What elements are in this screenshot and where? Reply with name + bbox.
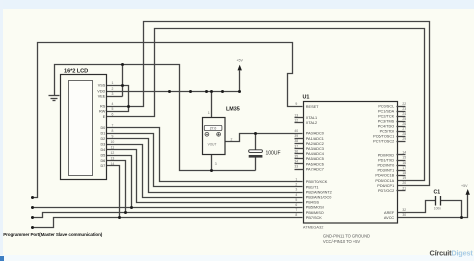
svg-text:1: 1 [208, 111, 210, 115]
wire +5V rail from LCD VDD to +5V arrow [107, 71, 240, 92]
temperature sensor LM35 body [203, 118, 226, 155]
power +5V symbol (AVCC / C1) [461, 184, 470, 195]
svg-text:PB5/MOSI: PB5/MOSI [306, 206, 324, 210]
svg-text:PD2/INT0: PD2/INT0 [378, 164, 395, 168]
svg-text:PA1/ADC1: PA1/ADC1 [306, 137, 324, 141]
svg-text:27: 27 [402, 127, 406, 131]
wire LCD D5 to U1 PB5 [107, 156, 303, 208]
svg-text:20: 20 [402, 181, 406, 185]
svg-text:RW: RW [99, 110, 106, 114]
svg-text:AVCC: AVCC [384, 216, 395, 220]
U1 right pin name labels [373, 105, 395, 220]
svg-text:PA4/ADC4: PA4/ADC4 [306, 152, 324, 156]
junction on +5V rail [221, 90, 224, 93]
svg-text:6: 6 [111, 113, 113, 117]
blue corner mark bottom-left [0, 256, 4, 261]
svg-text:19: 19 [402, 176, 406, 180]
svg-text:8: 8 [295, 213, 297, 217]
top light blue band [0, 0, 474, 9]
capacitor 100UF top plate [249, 150, 263, 153]
svg-text:PA5/ADC5: PA5/ADC5 [306, 157, 324, 161]
svg-text:2: 2 [295, 183, 297, 187]
capacitor 100UF bottom plate (polarized) [249, 155, 263, 158]
svg-text:+5V: +5V [461, 184, 468, 188]
svg-text:7: 7 [111, 124, 113, 128]
svg-text:PD1/TXD: PD1/TXD [378, 158, 394, 162]
ground symbol [49, 96, 60, 101]
junction VOUT wire / 100UF top [254, 132, 257, 135]
junction LM35 pin3 / ground run [210, 169, 213, 172]
node programmer terminal A (RESET) [31, 196, 34, 199]
svg-text:PC5/TDI: PC5/TDI [380, 130, 395, 134]
svg-text:PC6/TOSC1: PC6/TOSC1 [373, 135, 394, 139]
svg-text:21: 21 [402, 186, 406, 190]
svg-text:D5: D5 [100, 153, 105, 157]
svg-text:22: 22 [402, 102, 406, 106]
svg-text:17: 17 [402, 166, 406, 170]
LCD display 16*2 LCD box [61, 75, 107, 180]
svg-text:PB4/SS: PB4/SS [306, 201, 320, 205]
svg-text:D0: D0 [100, 126, 105, 130]
svg-text:VCC/-PIN10 TO +5V: VCC/-PIN10 TO +5V [323, 239, 361, 244]
svg-text:5: 5 [295, 198, 297, 202]
svg-text:1: 1 [111, 81, 113, 85]
svg-text:D7: D7 [100, 164, 105, 168]
svg-text:16*2 LCD: 16*2 LCD [64, 69, 88, 75]
svg-text:PD4/OC1B: PD4/OC1B [375, 174, 394, 178]
svg-text:PC0/SCL: PC0/SCL [378, 105, 394, 109]
svg-text:8: 8 [111, 129, 113, 133]
LCD screen inner rectangle [69, 81, 93, 176]
svg-text:4: 4 [111, 102, 113, 106]
svg-text:26: 26 [402, 122, 406, 126]
svg-text:Programmer Port(Master Slave c: Programmer Port(Master Slave communicati… [3, 232, 103, 237]
svg-text:12: 12 [111, 151, 115, 155]
svg-text:PC3/TMS: PC3/TMS [378, 120, 395, 124]
capacitor C1 plates [436, 196, 441, 206]
svg-text:40: 40 [294, 129, 298, 133]
svg-text:9: 9 [295, 102, 297, 106]
svg-text:PA0/ADC0: PA0/ADC0 [306, 132, 324, 136]
node programmer terminal D (SCK) [31, 226, 34, 229]
LCD pin name labels [97, 84, 105, 169]
svg-text:PB7/SCK: PB7/SCK [306, 216, 323, 220]
svg-text:33: 33 [294, 165, 298, 169]
svg-text:AREF: AREF [384, 211, 395, 215]
wire LCD E over the top to U1 PD5/OC1A pin 19 [107, 29, 425, 181]
wire LM35 pin1 to +5V rail [211, 92, 213, 118]
svg-text:7: 7 [295, 208, 297, 212]
U1 right pin stubs [397, 107, 406, 191]
svg-text:VDD: VDD [97, 90, 105, 94]
LCD pin numbers 1-14 [111, 81, 115, 166]
left light blue edge [0, 0, 3, 261]
wire programmer terminal C (MISO) step up to PB6 net [33, 213, 126, 218]
svg-text:PC4/TDO: PC4/TDO [378, 125, 395, 129]
svg-text:CírcuitDigest: CírcuitDigest [430, 248, 474, 257]
wire 100UF top plate to LM35 VOUT net [255, 134, 257, 150]
wire C1 right plate down to AVCC wire [441, 201, 462, 218]
svg-text:1: 1 [295, 178, 297, 182]
wire programmer terminal D (SCK) step up to PB7 net [33, 218, 120, 228]
junction VSS stub / ground vertical [121, 84, 124, 87]
svg-text:GND-PIN11 TO GROUND: GND-PIN11 TO GROUND [323, 233, 370, 238]
wire programmer terminal B (MOSI) to PB5 net [33, 207, 132, 209]
svg-text:29: 29 [402, 137, 406, 141]
power +5V symbol (LM35 rail) [236, 59, 243, 71]
svg-text:XTAL1: XTAL1 [306, 116, 317, 120]
svg-text:D2: D2 [100, 137, 105, 141]
LM35 temperature display window 27.0 [204, 125, 222, 130]
node programmer terminal C (MISO) [31, 216, 34, 219]
junction C1 right plate / AVCC wire [460, 216, 463, 219]
svg-text:4: 4 [295, 193, 297, 197]
junction MOSI wire / D5 corner PB5 [130, 206, 133, 209]
svg-text:ATMEGA32: ATMEGA32 [303, 224, 323, 229]
svg-text:15: 15 [402, 156, 406, 160]
svg-text:35: 35 [294, 155, 298, 159]
wire LCD D6 to U1 PB6 [107, 161, 303, 213]
svg-text:PB6/MISO: PB6/MISO [306, 211, 324, 215]
wire LCD RS over the top to U1 PD6/ICP1 pin 20 [107, 22, 430, 186]
wire U1 AREF pin 32 up to C1 left plate [398, 201, 436, 213]
wire 100UF bottom plate to ground run [255, 158, 257, 171]
svg-text:100n: 100n [434, 207, 441, 211]
node programmer terminal B (MOSI) [31, 206, 34, 209]
svg-text:9: 9 [111, 135, 113, 139]
svg-text:PA7/ADC7: PA7/ADC7 [306, 167, 324, 171]
wire ground net: ground symbol up, across, down at right of LCD, along bottom to 100UF [55, 65, 256, 171]
svg-text:D6: D6 [100, 159, 105, 163]
svg-text:PC1/SDA: PC1/SDA [378, 110, 395, 114]
svg-text:PB1/T1: PB1/T1 [306, 185, 319, 189]
svg-text:36: 36 [294, 149, 298, 153]
svg-text:PD7/OC2: PD7/OC2 [378, 189, 394, 193]
U1 right pin numbers [402, 102, 406, 217]
svg-text:PC2/TCK: PC2/TCK [378, 115, 395, 119]
svg-text:16: 16 [402, 161, 406, 165]
U1 left pin stubs [295, 118, 304, 170]
svg-text:D1: D1 [100, 132, 105, 136]
svg-text:PB3/AIN1/OC0: PB3/AIN1/OC0 [306, 196, 332, 200]
wire LM35 pin3 to ground run [211, 155, 213, 171]
svg-text:PA3/ADC3: PA3/ADC3 [306, 147, 324, 151]
svg-text:PD5/OC1A: PD5/OC1A [375, 179, 394, 183]
junction MISO wire / D6 corner PB6 [124, 211, 127, 214]
svg-text:PA6/ADC6: PA6/ADC6 [306, 162, 324, 166]
svg-text:PC7/TOSC2: PC7/TOSC2 [373, 140, 394, 144]
wire LCD D7 to U1 PB7 [107, 166, 303, 218]
svg-text:2: 2 [231, 138, 233, 142]
svg-text:14: 14 [402, 151, 406, 155]
svg-text:PB2/AIN0/INT2: PB2/AIN0/INT2 [306, 190, 332, 194]
junction LM35 pin1 on +5V rail [210, 90, 213, 93]
junction RS wire / RW ground vertical [127, 105, 130, 108]
junction on +5V rail [205, 90, 208, 93]
svg-text:25: 25 [402, 117, 406, 121]
svg-text:11: 11 [111, 145, 115, 149]
junction ground wire / VSS-VEE branch [121, 63, 124, 66]
svg-text:13: 13 [111, 156, 115, 160]
svg-text:28: 28 [402, 132, 406, 136]
wire LCD D0 to U1 PB0 [107, 128, 303, 182]
svg-text:+5V: +5V [236, 59, 243, 63]
svg-text:LM35: LM35 [226, 107, 240, 113]
svg-text:3: 3 [215, 162, 217, 166]
junction on +5V rail [189, 90, 192, 93]
svg-text:E: E [103, 115, 106, 119]
wire LCD D2 to U1 PB2 [107, 139, 303, 193]
bottom light tint band [0, 255, 474, 261]
svg-text:5: 5 [111, 107, 113, 111]
svg-text:3: 3 [111, 92, 113, 96]
svg-text:30: 30 [402, 213, 406, 217]
wire ground branch to LCD VSS/VEE vertical [122, 65, 124, 97]
svg-text:18: 18 [402, 171, 406, 175]
svg-text:PD0/RXD: PD0/RXD [378, 153, 395, 157]
svg-text:VOUT: VOUT [208, 143, 217, 147]
wire LM35 VOUT to U1 PA0/ADC0 pin 40 [226, 134, 303, 142]
svg-text:2: 2 [111, 87, 113, 91]
svg-text:37: 37 [294, 144, 298, 148]
junction SCK wire / D7 corner PB7 [118, 216, 121, 219]
wire LCD VSS stub to corner and down to RW (RW tied to ground) [107, 86, 129, 112]
LM35 adjust buttons (circles) [205, 132, 221, 136]
microcontroller U1 ATMEGA32 box [304, 102, 398, 224]
U1 left pin name labels [306, 105, 332, 220]
svg-text:27.0: 27.0 [210, 127, 217, 131]
svg-text:23: 23 [402, 107, 406, 111]
svg-text:U1: U1 [303, 94, 310, 100]
wire LCD VEE stub [107, 96, 123, 98]
wire U1 AVCC pin 30 to +5V arrow [398, 195, 468, 218]
svg-text:32: 32 [402, 208, 406, 212]
wire LCD D3 to U1 PB3 [107, 145, 303, 198]
U1 left pin numbers [294, 102, 298, 217]
svg-text:13: 13 [294, 113, 298, 117]
svg-text:100UF: 100UF [266, 150, 281, 156]
svg-text:3: 3 [295, 188, 297, 192]
svg-text:C1: C1 [434, 189, 441, 195]
svg-text:XTAL2: XTAL2 [306, 121, 317, 125]
svg-text:34: 34 [294, 160, 298, 164]
wire LCD D4 to U1 PB4 [107, 150, 303, 203]
svg-text:6: 6 [295, 203, 297, 207]
svg-text:PD6/ICP1: PD6/ICP1 [377, 184, 394, 188]
svg-text:PD3/INT1: PD3/INT1 [378, 169, 395, 173]
svg-text:38: 38 [294, 139, 298, 143]
svg-text:D3: D3 [100, 143, 105, 147]
svg-text:24: 24 [402, 112, 406, 116]
svg-text:RESET: RESET [306, 105, 319, 109]
wire LCD D1 to U1 PB1 [107, 134, 303, 187]
svg-text:PB0/T0/XCK: PB0/T0/XCK [306, 180, 328, 184]
svg-text:14: 14 [111, 162, 115, 166]
svg-text:VSS: VSS [98, 84, 106, 88]
svg-text:PA2/ADC2: PA2/ADC2 [306, 142, 324, 146]
svg-text:12: 12 [294, 118, 298, 122]
svg-text:D4: D4 [100, 148, 105, 152]
wire RESET net: programmer terminal A up left side, across top, down to U1 RESET pin 9 [33, 43, 303, 198]
svg-text:RS: RS [100, 105, 106, 109]
svg-text:39: 39 [294, 134, 298, 138]
junction on +5V rail [168, 90, 171, 93]
junction +5V arrow on rail end [238, 90, 241, 93]
svg-text:10: 10 [111, 140, 115, 144]
svg-text:VEE: VEE [98, 95, 106, 99]
